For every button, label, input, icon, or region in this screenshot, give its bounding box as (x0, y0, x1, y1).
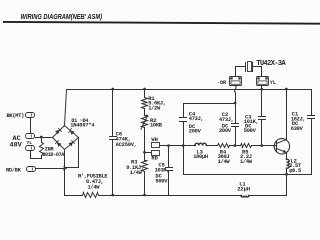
wire R1 to R2 (144, 109, 146, 116)
svg-text:AC250V,: AC250V, (116, 142, 137, 148)
capacitor C4 plates (180, 118, 187, 122)
node return-emitter junction (285, 173, 288, 176)
inductor L1 22uH bumps (241, 196, 249, 198)
node C5 top junction (167, 144, 170, 147)
node C2 top junction (234, 102, 237, 105)
capacitor C5 branch lower (168, 171, 170, 196)
wire WH to C5 node (160, 145, 169, 147)
wire bottom DC- rail left segment (65, 195, 83, 197)
wire RD/BK to bridge (36, 168, 65, 170)
diode D1 upper-left (55, 130, 60, 135)
varistor ZNR 301D-07A (40, 138, 44, 159)
wire emitter return line (184, 146, 312, 175)
node C3 bottom junction (260, 144, 263, 147)
node bus-YL junction (260, 88, 263, 91)
wire RD to R2R3 junction (145, 152, 152, 154)
connector WH (152, 143, 160, 148)
svg-text:RD: RD (151, 156, 158, 162)
node bus-R1 junction (143, 88, 146, 91)
wire R2 down to RD junction and R3 (144, 128, 146, 161)
svg-text:1/4W: 1/4W (240, 159, 253, 165)
svg-text:BK(MT): BK(MT) (7, 113, 25, 119)
connector RD (152, 151, 160, 156)
wire bus left riser to bridge top (65, 90, 67, 126)
thermal protector TU42X-3A body (248, 62, 252, 72)
svg-text:10KB: 10KB (150, 123, 163, 129)
capacitor C4 branch lower (183, 122, 185, 146)
resistor R3 9.1KJ (142, 161, 148, 172)
svg-text:RD/BK: RD/BK (6, 167, 22, 173)
wire collector riser (286, 90, 288, 140)
svg-text:301D-07A: 301D-07A (42, 152, 65, 158)
potentiometer R2 arrow (141, 115, 148, 129)
capacitor C6 branch lower (112, 140, 114, 196)
node bus-C6 junction (111, 88, 114, 91)
connector AC input 2 YL (26, 146, 35, 151)
capacitor C5 plates (166, 168, 173, 171)
node junction ZNR top (40, 136, 43, 139)
wire bridge right vertex riser (65, 138, 79, 168)
diode D2 upper-right (70, 130, 75, 135)
node bus-collector junction (285, 88, 288, 91)
svg-text:1/4W: 1/4W (218, 159, 231, 165)
svg-text:φ6.5: φ6.5 (289, 168, 301, 174)
diode D3 lower-left (57, 142, 62, 147)
node RD junction (143, 151, 146, 154)
connector BK(MT) (26, 113, 35, 118)
svg-text:1N4007*4: 1N4007*4 (70, 123, 95, 129)
capacitor C3 branch lower (261, 120, 263, 146)
svg-text:1/2W: 1/2W (148, 105, 161, 111)
resistor R' fusible zigzag (83, 193, 99, 198)
capacitor C1 branch lower (311, 119, 313, 175)
transistor Q1 collector lead (277, 140, 287, 144)
thermal protector TU42X-3A plates (246, 63, 253, 72)
connector AC input 1 (26, 134, 35, 139)
svg-text:48V: 48V (10, 141, 23, 149)
capacitor C6 branch upper (112, 90, 114, 137)
node emitter-return/C4 junction (182, 144, 185, 147)
capacitor C4 branch upper (183, 104, 185, 118)
connector RD/BK (27, 167, 36, 172)
svg-text:500V: 500V (244, 128, 257, 134)
wire AC2 connector down and right to ZNR bottom (31, 151, 42, 159)
wire bottom rail mid segment (99, 195, 242, 197)
potentiometer R2 zigzag (142, 116, 148, 128)
transistor Q1 base bar (276, 142, 278, 152)
svg-text:100μH: 100μH (193, 154, 208, 160)
wire thermal protector to YL (253, 67, 262, 77)
wire C4node to L3 (184, 145, 196, 147)
bridge rectifier D1-D4 diamond outline (53, 126, 79, 150)
capacitor C2 plates (232, 124, 239, 127)
diode D4 lower-right (69, 142, 74, 147)
wire BK(MT) to AC connector (30, 118, 32, 134)
wire bottom rail right segment (249, 195, 287, 197)
resistor R4 360J (218, 144, 230, 148)
connector OR lamp (230, 77, 242, 86)
svg-text:YL: YL (270, 80, 276, 86)
inductor L3 100uH bumps (195, 143, 206, 145)
svg-text:200V: 200V (189, 129, 202, 135)
capacitor C1 plates (308, 116, 315, 119)
svg-text:473J,: 473J, (189, 116, 204, 122)
wire YL riser to C3 (261, 86, 263, 117)
wire emitter down (286, 153, 288, 160)
capacitor C3 plates (259, 117, 266, 120)
resistor R1 5.6KJ (142, 98, 148, 109)
svg-text:1/4W: 1/4W (88, 184, 101, 190)
wire R4 to C2 node (230, 145, 241, 147)
svg-text:473J,: 473J, (219, 117, 234, 123)
wire OR riser with crossover hop (235, 93, 237, 104)
wire C5node to C4 node (169, 145, 184, 147)
wire second line y103 (184, 103, 236, 105)
capacitor C2 branch upper (235, 104, 237, 124)
wire AC1 to bridge left vertex (36, 137, 53, 139)
wire R3 to rail (144, 172, 146, 196)
wire L2 to rail (286, 169, 288, 196)
capacitor C6 plates (110, 137, 117, 140)
svg-text:200V: 200V (219, 128, 232, 134)
wire L3 to R4 (207, 145, 218, 147)
svg-text:500V: 500V (155, 178, 168, 184)
capacitor C2 branch lower (235, 127, 237, 146)
svg-text:1/4W: 1/4W (130, 170, 143, 176)
capacitor C5 branch upper (168, 146, 170, 168)
connector YL lamp (257, 77, 269, 86)
wire R5 to base (252, 145, 277, 147)
node rail-C6 junction (111, 194, 114, 197)
node rail-R3 junction (143, 194, 146, 197)
transistor Q1 emitter lead (277, 149, 287, 153)
inductor L2 bumps (287, 159, 290, 168)
wire top DC+ bus (67, 89, 312, 91)
title underline rule (3, 22, 320, 24)
wire bus to R1 (144, 90, 146, 98)
svg-text:630V: 630V (291, 126, 304, 132)
capacitor C1 branch upper (311, 90, 313, 116)
resistor R5 2.2J (241, 144, 252, 148)
wire OR to thermal protector (236, 67, 246, 77)
transistor Q1 body circle (274, 139, 289, 154)
svg-text:22μH: 22μH (237, 187, 250, 193)
junction chevron at RD/BK wire (63, 167, 66, 171)
wire bridge bottom to rail (64, 150, 66, 196)
svg-text:WIRING DIAGRAM(NEB' ASM): WIRING DIAGRAM(NEB' ASM) (21, 13, 103, 21)
node C2 bottom junction (234, 144, 237, 147)
svg-text:·OR: ·OR (217, 80, 227, 86)
